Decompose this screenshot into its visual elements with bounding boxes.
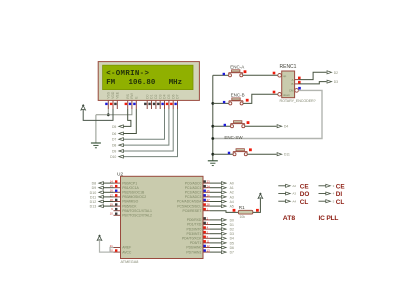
svg-text:PC4/ADC4/SDA: PC4/ADC4/SDA: [177, 200, 202, 204]
terminal D5: [222, 241, 227, 244]
wire terminal D11 to U2: [103, 196, 113, 198]
wire AVCC to power: [100, 240, 114, 252]
wire PC6/RESET to R1: [210, 211, 238, 213]
terminal D1: [222, 223, 227, 226]
wire U2 to terminal D1: [210, 224, 221, 226]
terminal D11: [99, 195, 104, 198]
svg-text:PD2/INT0: PD2/INT0: [187, 227, 202, 231]
svg-text:up: up: [283, 74, 287, 78]
svg-text:D13: D13: [90, 205, 97, 209]
wire ENC-B row: [213, 102, 229, 104]
svg-text:11: 11: [207, 240, 210, 244]
terminal D2: [222, 228, 227, 231]
svg-text:PC3/ADC3: PC3/ADC3: [185, 195, 202, 199]
terminal A4: [222, 200, 227, 203]
terminal D11: [277, 153, 282, 156]
RENC1 pin up: [278, 74, 282, 78]
svg-text:PB7/TOSC2/XTAL2: PB7/TOSC2/XTAL2: [122, 214, 152, 218]
svg-text:PD6/AIN0: PD6/AIN0: [186, 246, 201, 250]
svg-text:DO: DO: [300, 191, 310, 198]
RENC1 pin CM: [295, 89, 299, 93]
U2 pin 2 PD0/RXD: [203, 219, 210, 221]
svg-text:ENC-A: ENC-A: [230, 65, 244, 70]
svg-text:RW: RW: [130, 92, 134, 98]
wire VDD to power: [83, 109, 113, 120]
svg-text:D11: D11: [284, 153, 290, 157]
wire ENC-A row: [213, 74, 229, 76]
U2 pin 6 PD4/T0/XCK: [203, 237, 210, 239]
svg-text:A2: A2: [292, 184, 296, 188]
terminal A3: [222, 195, 227, 198]
ground symbol encoder bus: [208, 160, 218, 162]
svg-text:RENC1: RENC1: [280, 64, 297, 70]
svg-text:24: 24: [207, 184, 210, 188]
svg-text:FM 106.80 MHz: FM 106.80 MHz: [106, 79, 182, 87]
wire U2 to terminal D2: [210, 228, 221, 230]
svg-text:PD0/RXD: PD0/RXD: [187, 218, 202, 222]
U2 pin 23 PC0/ADC0: [203, 182, 210, 184]
U2 pin 3 PD1/TXD: [203, 224, 210, 226]
wire RS to terminal D5: [124, 109, 131, 126]
node 5 to CL (IC PLL): [319, 200, 326, 202]
svg-text:D3: D3: [334, 80, 338, 84]
svg-text:10: 10: [110, 212, 113, 216]
svg-text:PD3/INT1: PD3/INT1: [187, 232, 202, 236]
svg-text:D8: D8: [112, 144, 116, 148]
wire terminal D8 to U2: [103, 182, 113, 184]
U2 pin 1 PC6/RESET: [203, 210, 210, 212]
wire U2 to terminal D7: [210, 251, 221, 253]
svg-text:D2: D2: [334, 71, 338, 75]
wire U2 to terminal D3: [210, 233, 221, 235]
svg-text:PC6/RESET: PC6/RESET: [183, 209, 202, 213]
svg-text:D4: D4: [284, 125, 288, 129]
junction grey net on bus: [211, 137, 214, 140]
terminal D0: [222, 218, 227, 221]
svg-text:PB4/MISO: PB4/MISO: [122, 200, 138, 204]
svg-text:23: 23: [207, 180, 210, 184]
terminal D12: [99, 200, 104, 203]
svg-text:D5: D5: [112, 125, 116, 129]
node 3 to CE (IC PLL): [319, 185, 326, 187]
U2 pin 4 PD2/INT0: [203, 228, 210, 230]
svg-text:AT8: AT8: [283, 215, 296, 222]
svg-text:ATMEGA8: ATMEGA8: [121, 260, 139, 264]
terminal D2: [327, 71, 332, 74]
terminal D13: [99, 205, 104, 208]
svg-text:D11: D11: [90, 195, 96, 199]
wire ENC-A to RENC1 up pin: [243, 74, 278, 76]
U2 pin 21 AREF: [114, 247, 121, 249]
svg-text:A4: A4: [292, 199, 296, 203]
terminal D8: [99, 182, 104, 185]
U2 pin 5 PD3/INT1: [203, 233, 210, 235]
svg-text:<-OMRIN->: <-OMRIN->: [106, 70, 149, 78]
terminal D9: [119, 150, 124, 153]
wire U2 to terminal A0: [210, 182, 221, 184]
junction SW2 on bus: [211, 153, 214, 156]
svg-text:VSS: VSS: [107, 91, 111, 99]
U2 pin 10 PB7/TOSC2/XTAL2: [114, 214, 121, 216]
wire terminal D12 to U2: [103, 201, 113, 203]
U2 pin 12 PD6/AIN0: [203, 247, 210, 249]
svg-text:10k: 10k: [240, 215, 246, 219]
U2 pin 18 PB4/MISO: [114, 201, 121, 203]
power terminal VDD: [81, 106, 86, 110]
svg-text:down: down: [283, 93, 290, 97]
terminal A1: [222, 186, 227, 189]
svg-text:D7: D7: [230, 251, 234, 255]
svg-text:D0: D0: [230, 218, 234, 222]
terminal A2: [222, 191, 227, 194]
wire U2 to terminal D6: [210, 247, 221, 249]
U2 pin 15 PB1/OC1A: [114, 187, 121, 189]
terminal A5: [222, 205, 227, 208]
svg-text:D7: D7: [112, 138, 116, 142]
wire R1 to power: [253, 198, 261, 212]
svg-text:27: 27: [207, 198, 210, 202]
U2 pin 13 PD7/AIN1: [203, 251, 210, 253]
wire SW2 row: [213, 153, 233, 155]
svg-text:PB1/OC1A: PB1/OC1A: [122, 186, 139, 190]
svg-text:D12: D12: [90, 200, 97, 204]
svg-text:D10: D10: [110, 155, 116, 159]
junction ENC-SW on bus: [211, 125, 214, 128]
svg-text:A0: A0: [230, 182, 234, 186]
svg-text:D6: D6: [112, 132, 116, 136]
svg-text:PC5/ADC5/SCL: PC5/ADC5/SCL: [177, 204, 201, 208]
terminal A0: [222, 182, 227, 185]
wire rail down to ground: [95, 115, 97, 143]
svg-text:PB0/ICP1: PB0/ICP1: [122, 181, 137, 185]
U2 pin 19 PB5/SCK: [114, 205, 121, 207]
svg-text:28: 28: [207, 203, 210, 207]
wire U2 to terminal A5: [210, 205, 221, 207]
svg-text:D4: D4: [163, 94, 167, 98]
terminal D3: [327, 80, 332, 83]
U2 pin 27 PC4/ADC4/SDA: [203, 201, 210, 203]
svg-text:IC PLL: IC PLL: [319, 215, 339, 222]
U2 pin 25 PC2/ADC2: [203, 191, 210, 193]
wire ground rail to RW: [96, 109, 132, 115]
RENC1 pin down: [278, 93, 282, 97]
svg-text:CM: CM: [289, 89, 294, 93]
U2 pin 11 PD5/T1: [203, 242, 210, 244]
terminal D7: [222, 251, 227, 254]
svg-text:CE: CE: [300, 184, 310, 191]
wire AREF jog: [110, 248, 114, 253]
svg-text:12: 12: [207, 244, 210, 248]
power terminal AVCC: [97, 236, 102, 240]
U2 pin 24 PC1/ADC1: [203, 187, 210, 189]
terminal D6: [119, 132, 124, 135]
svg-text:PC1/ADC1: PC1/ADC1: [185, 186, 202, 190]
terminal D3: [222, 232, 227, 235]
wire RENC1 CM to bus (grey net): [213, 90, 322, 138]
wire ENC-B to RENC1 down pin: [243, 94, 277, 103]
node 4 to DI (IC PLL): [319, 193, 326, 195]
svg-text:DI: DI: [336, 191, 343, 198]
button ENC-A: [229, 72, 243, 74]
wire U2 to terminal D5: [210, 242, 221, 244]
button SW2: [233, 151, 247, 153]
svg-text:D5: D5: [230, 241, 234, 245]
wire LCD D5 to terminal D8: [124, 109, 169, 145]
wire LCD D4 to terminal D7: [124, 109, 165, 139]
terminal D4: [277, 125, 282, 128]
U2 pin 20 AVCC: [114, 251, 121, 253]
svg-text:D2: D2: [230, 228, 234, 232]
node A2 to CE (AT8): [278, 185, 285, 187]
svg-text:PB3/MOSI/OC2: PB3/MOSI/OC2: [122, 195, 146, 199]
svg-text:25: 25: [207, 189, 210, 193]
U2 pin 26 PC3/ADC3: [203, 196, 210, 198]
svg-text:VEE: VEE: [116, 91, 120, 99]
svg-text:D10: D10: [90, 191, 97, 195]
terminal D6: [222, 246, 227, 249]
U2 pin 17 PB3/MOSI/OC2: [114, 196, 121, 198]
wire U2 to terminal A1: [210, 187, 221, 189]
svg-text:D1: D1: [150, 94, 154, 98]
svg-text:ENC-B: ENC-B: [231, 93, 245, 98]
wire terminal D9 to U2: [103, 187, 113, 189]
button ENC-SW: [231, 123, 245, 125]
terminal D4: [222, 237, 227, 240]
U2 pin 9 PB6/TOSC1/XTAL1: [114, 210, 121, 212]
power terminal R1: [258, 194, 263, 198]
svg-text:CL: CL: [300, 199, 309, 206]
svg-text:D1: D1: [230, 223, 234, 227]
wire RENC1 B to terminal D3: [299, 82, 327, 84]
wire RENC1 A to terminal D2: [299, 72, 327, 79]
svg-text:B: B: [291, 82, 293, 86]
U2 pin 14 PB0/ICP1: [114, 182, 121, 184]
svg-text:D7: D7: [176, 94, 180, 98]
svg-text:D9: D9: [112, 150, 116, 154]
terminal D10: [119, 155, 124, 158]
svg-text:PD5/T1: PD5/T1: [190, 241, 202, 245]
wire U2 to terminal D4: [210, 237, 221, 239]
U2 pin 16 PB2/SS/OC1B: [114, 191, 121, 193]
junction VSS/ground rail: [107, 113, 110, 116]
svg-text:D8: D8: [92, 182, 97, 186]
svg-text:A2: A2: [230, 191, 234, 195]
wire LCD D7 to terminal D10: [124, 109, 178, 157]
svg-text:26: 26: [207, 194, 210, 198]
terminal D10: [99, 191, 104, 194]
LCD module LM016L bezel: [98, 62, 199, 101]
svg-text:A1: A1: [230, 186, 234, 190]
svg-text:CL: CL: [336, 199, 345, 206]
U2 pin 28 PC5/ADC5/SCL: [203, 205, 210, 207]
svg-text:R1: R1: [239, 205, 245, 210]
LCD screen: [103, 65, 193, 89]
svg-text:PB6/TOSC1/XTAL1: PB6/TOSC1/XTAL1: [122, 209, 152, 213]
node A3 to DO (AT8): [278, 193, 285, 195]
svg-text:A5: A5: [230, 205, 234, 209]
terminal D7: [119, 138, 124, 141]
svg-text:PB2/SS/OC1B: PB2/SS/OC1B: [122, 191, 145, 195]
wire terminal D13 to U2: [103, 205, 113, 207]
wire LCD D6 to terminal D9: [124, 109, 174, 151]
RENC1 pin B: [295, 83, 299, 85]
wire VSS to ground rail: [107, 109, 109, 115]
svg-text:PD4/T0/XCK: PD4/T0/XCK: [182, 237, 202, 241]
svg-text:D9: D9: [92, 186, 97, 190]
wire ENC bus vertical: [212, 75, 214, 161]
svg-text:ROTARY_ENCODER?: ROTARY_ENCODER?: [280, 99, 316, 103]
svg-text:D6: D6: [230, 246, 234, 250]
wire U2 to terminal A2: [210, 191, 221, 193]
RENC1 pin A: [295, 79, 299, 81]
wire SW2 to terminal D11: [247, 153, 276, 155]
svg-text:PC2/ADC2: PC2/ADC2: [185, 191, 202, 195]
junction ENC-B on bus: [211, 102, 214, 105]
wire E to terminal D6: [124, 109, 137, 134]
svg-text:A3: A3: [292, 192, 296, 196]
svg-text:CE: CE: [336, 184, 346, 191]
terminal D5: [119, 125, 124, 128]
svg-text:PC0/ADC0: PC0/ADC0: [185, 181, 202, 185]
svg-text:PB5/SCK: PB5/SCK: [122, 204, 137, 208]
svg-text:13: 13: [207, 249, 210, 253]
terminal D9: [99, 186, 104, 189]
svg-text:AVCC: AVCC: [122, 250, 132, 254]
svg-text:ENC-SW: ENC-SW: [224, 135, 243, 140]
svg-text:D4: D4: [230, 237, 234, 241]
svg-text:D3: D3: [230, 232, 234, 236]
node A4 to CL (AT8): [278, 200, 285, 202]
wire ENC-SW to terminal D4: [245, 125, 277, 127]
wire terminal D10 to U2: [103, 191, 113, 193]
wire U2 to terminal A4: [210, 201, 221, 203]
wire ENC-SW row: [213, 125, 231, 127]
wire U2 to terminal D0: [210, 219, 221, 221]
terminal D8: [119, 144, 124, 147]
svg-text:PD7/AIN1: PD7/AIN1: [186, 250, 201, 254]
ground symbol LCD: [91, 142, 101, 144]
svg-text:PD1/TXD: PD1/TXD: [187, 223, 202, 227]
svg-text:A3: A3: [230, 195, 234, 199]
wire U2 to terminal A3: [210, 196, 221, 198]
button ENC-B: [229, 100, 243, 102]
svg-text:A4: A4: [230, 200, 234, 204]
svg-text:AREF: AREF: [122, 246, 131, 250]
